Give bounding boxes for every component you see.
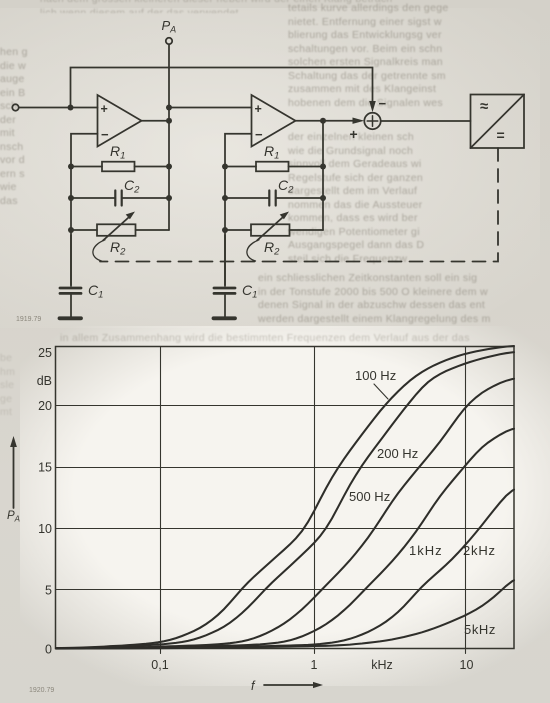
- node R1 row rv1: [166, 164, 172, 170]
- svg-text:1919.79: 1919.79: [16, 316, 41, 323]
- svg-text:R1: R1: [110, 143, 125, 162]
- svg-text:20: 20: [38, 399, 52, 413]
- node C2 row bus2: [222, 195, 228, 201]
- wire output bus stage 1 (PA down through nodes): [168, 44, 170, 230]
- svg-text:1920.79: 1920.79: [29, 687, 54, 694]
- variable resistor R2 (stage 1): [71, 212, 169, 241]
- summer node: [364, 113, 380, 129]
- op-amp U2: [252, 95, 296, 147]
- node A: [68, 105, 74, 111]
- capacitor C1 (stage 2): [214, 235, 235, 317]
- wire stage link to U2 + input: [169, 107, 252, 109]
- node U2 output: [320, 118, 326, 124]
- node U1 output: [166, 118, 172, 124]
- converter block (AC/DC): [471, 95, 525, 149]
- capacitor C2 (stage 1): [71, 191, 169, 206]
- wire U2 output: [296, 120, 324, 122]
- svg-text:+: +: [101, 102, 108, 116]
- svg-text:1: 1: [311, 658, 318, 672]
- curve 5kHz: [56, 580, 514, 648]
- svg-text:kHz: kHz: [371, 658, 393, 672]
- svg-text:5kHz: 5kHz: [464, 622, 496, 637]
- node R2 row bus1: [68, 227, 74, 233]
- wire U1 minus input to feedback bus: [71, 134, 98, 167]
- svg-text:PA: PA: [7, 510, 20, 524]
- svg-text:C2: C2: [278, 177, 294, 196]
- curve 500Hz: [56, 379, 514, 649]
- arrowhead into summer (plus input): [353, 118, 365, 124]
- svg-text:10: 10: [38, 522, 52, 536]
- f axis arrow: [251, 679, 323, 693]
- svg-text:R2: R2: [110, 239, 126, 258]
- svg-text:C2: C2: [124, 177, 140, 196]
- curve 1kHz: [56, 429, 514, 649]
- wire feedforward: node A up and across to summer: [71, 68, 373, 108]
- svg-text:+: +: [255, 102, 262, 116]
- node R1 row rv2: [320, 164, 326, 170]
- node R1 row bus1: [68, 164, 74, 170]
- gridline 15 dB: [56, 467, 515, 469]
- node C2 row rv1: [166, 195, 172, 201]
- svg-text:25: 25: [38, 346, 52, 360]
- leader line 100Hz label: [374, 384, 388, 399]
- svg-text:200 Hz: 200 Hz: [377, 446, 418, 461]
- wire node A to op-amp U1 + input: [71, 107, 98, 109]
- PA axis arrow: [10, 436, 17, 508]
- svg-text:−: −: [101, 127, 109, 142]
- input terminal: [12, 104, 18, 110]
- gridline 5 dB: [56, 589, 515, 591]
- faint page bleed-through text top right: [288, 2, 550, 114]
- resistor R1 (stage 2): [225, 162, 323, 172]
- faint bleed left margin: [0, 46, 64, 336]
- faint bleed row at very top: [40, 0, 550, 13]
- dashed control line from block to R2 resistors: [100, 148, 498, 262]
- svg-text:1kHz: 1kHz: [409, 543, 443, 558]
- terminal PA: [166, 38, 172, 44]
- ground stage 1: [60, 316, 82, 320]
- svg-text:15: 15: [38, 461, 52, 475]
- svg-text:100 Hz: 100 Hz: [355, 368, 396, 383]
- curve 100Hz: [56, 346, 514, 648]
- svg-text:−: −: [379, 96, 387, 111]
- curve labels: [349, 368, 496, 637]
- x axis labels: [151, 658, 473, 672]
- variable resistor R2 (stage 2): [225, 212, 323, 241]
- wire U1 output: [142, 120, 170, 122]
- svg-text:500 Hz: 500 Hz: [349, 489, 390, 504]
- node C2 row bus1: [68, 195, 74, 201]
- svg-text:=: =: [497, 127, 505, 143]
- gridline 20 dB: [56, 405, 515, 407]
- wire U2 minus input to feedback bus: [225, 134, 252, 167]
- svg-text:5: 5: [45, 584, 52, 598]
- wire feedback bus stage 1: [70, 167, 72, 286]
- wire summer to converter block: [381, 120, 471, 122]
- gridline 1 kHz: [314, 347, 316, 654]
- curve 200Hz: [56, 352, 514, 648]
- ground stage 2: [214, 316, 236, 320]
- svg-text:C1: C1: [242, 282, 257, 301]
- svg-text:R1: R1: [264, 143, 279, 162]
- wire input to node A: [19, 107, 71, 109]
- wire feedback bus stage 2: [224, 167, 226, 286]
- gridline 10 dB: [56, 528, 515, 530]
- svg-text:C1: C1: [88, 282, 103, 301]
- faint page bleed-through text right column: [288, 131, 550, 341]
- svg-text:10: 10: [460, 658, 474, 672]
- control hook R2 stage 2: [247, 240, 259, 261]
- node C2 row rv2: [320, 195, 326, 201]
- svg-text:2kHz: 2kHz: [463, 543, 496, 558]
- wire output bus stage 2: [322, 121, 324, 230]
- node R2 row bus2: [222, 227, 228, 233]
- chart frame: [56, 347, 515, 649]
- svg-text:0: 0: [45, 643, 52, 657]
- op-amp U1: [98, 95, 142, 147]
- wire U2 output to summer: [323, 120, 356, 122]
- node R1 row bus2: [222, 164, 228, 170]
- svg-text:f: f: [251, 679, 256, 693]
- arrowhead into summer (minus input): [369, 101, 376, 112]
- gridline 10 kHz: [465, 347, 467, 654]
- svg-text:PA: PA: [162, 18, 177, 35]
- svg-text:R2: R2: [264, 239, 280, 258]
- svg-text:+: +: [350, 126, 358, 142]
- resistor R1 (stage 1): [71, 162, 169, 172]
- svg-text:−: −: [255, 127, 263, 142]
- gridline 0.1 kHz: [160, 347, 162, 654]
- capacitor C2 (stage 2): [225, 191, 323, 206]
- svg-text:0,1: 0,1: [151, 658, 168, 672]
- svg-text:≈: ≈: [480, 98, 488, 115]
- svg-text:dB: dB: [37, 374, 52, 388]
- control hook R2 stage 1: [93, 240, 105, 261]
- curve 2kHz: [56, 490, 514, 649]
- node U1 out to U2 link: [166, 105, 172, 111]
- y axis labels: [37, 346, 52, 657]
- capacitor C1 (stage 1): [60, 235, 81, 317]
